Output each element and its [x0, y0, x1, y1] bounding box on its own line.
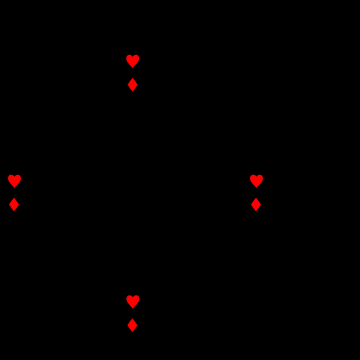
east hand: spade pip (black): [251, 152, 263, 165]
north hand: club pip (black): [127, 101, 139, 114]
south hand: club pip (black): [127, 342, 139, 355]
east hand: club pip (black): [250, 221, 262, 234]
west hand: club pip (black): [8, 221, 20, 234]
north hand: spade pip (black): [127, 32, 139, 45]
west hand: heart pip: [8, 175, 21, 189]
north hand: diamond pip: [128, 78, 138, 92]
north hand: heart pip: [126, 55, 139, 69]
east hand: diamond pip: [251, 198, 261, 212]
east hand: heart pip: [250, 175, 263, 189]
south hand: diamond pip: [127, 318, 137, 332]
south hand: heart pip: [126, 295, 139, 309]
south hand: spade pip (black): [127, 272, 139, 285]
west hand: spade pip (black): [9, 152, 21, 165]
west hand: diamond pip: [9, 198, 19, 212]
